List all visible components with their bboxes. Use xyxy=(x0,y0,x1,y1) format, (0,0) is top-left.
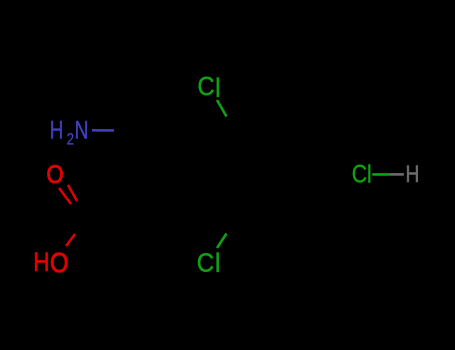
svg-text:l: l xyxy=(215,73,221,103)
svg-text:N: N xyxy=(75,116,89,144)
svg-text:H: H xyxy=(50,116,64,144)
svg-text:O: O xyxy=(47,161,64,189)
svg-text:O: O xyxy=(50,249,68,279)
svg-text:C: C xyxy=(198,73,215,101)
svg-text:2: 2 xyxy=(67,130,74,149)
svg-text:C: C xyxy=(197,249,214,278)
svg-text:H: H xyxy=(33,248,49,277)
svg-text:l: l xyxy=(215,248,221,278)
svg-text:H: H xyxy=(406,160,420,188)
svg-text:Cl: Cl xyxy=(352,160,372,188)
